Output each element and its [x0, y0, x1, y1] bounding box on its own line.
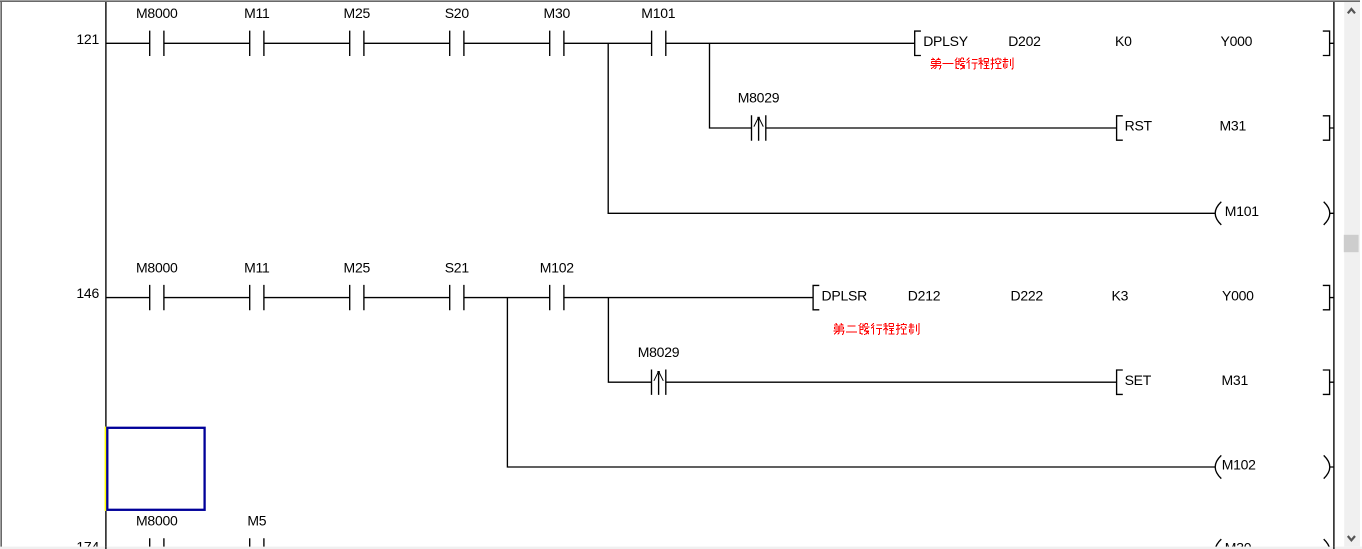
vertical scrollbar track — [1344, 2, 1360, 547]
left bus bar (bottom segment over strip) — [105, 547, 106, 549]
yellow bus segment in selection — [105, 427, 107, 511]
svg-text:M102: M102 — [1222, 457, 1256, 473]
svg-text:M101: M101 — [1225, 203, 1259, 219]
rung 174 (partially visible): contact M8000 — [150, 538, 164, 549]
svg-text:M102: M102 — [540, 259, 574, 275]
window border top — [0, 0, 1360, 1]
svg-text:S20: S20 — [445, 5, 470, 21]
wire branch down to M102 coil — [507, 298, 1215, 467]
svg-text:K3: K3 — [1112, 287, 1129, 303]
contact M25 — [350, 31, 364, 56]
contact M5 — [250, 538, 264, 549]
svg-text:M11: M11 — [244, 259, 270, 275]
instruction SET left bracket — [1117, 370, 1123, 394]
left bus bar — [105, 2, 107, 547]
svg-text:M8029: M8029 — [738, 90, 780, 106]
red comment row 1: 第一段行程控制 — [931, 58, 1013, 70]
svg-text:M8000: M8000 — [136, 259, 178, 275]
svg-text:D222: D222 — [1011, 287, 1044, 303]
svg-text:M31: M31 — [1222, 372, 1249, 388]
instruction DPLSR right bracket — [1323, 285, 1334, 309]
instruction RST right bracket — [1323, 116, 1334, 140]
svg-text:M31: M31 — [1220, 118, 1247, 134]
svg-text:M30: M30 — [544, 5, 571, 21]
rung 121: wire — [106, 42, 915, 44]
contact M25 (rung 146) — [350, 285, 364, 310]
contact M101 — [652, 31, 666, 56]
contact M30 — [550, 31, 564, 56]
scrollbar down arrow — [1348, 536, 1355, 540]
pulse contact M8029 (rung 146) — [652, 370, 666, 395]
contact M11 — [250, 31, 264, 56]
red comment row 2: 第二段行程控制 — [834, 323, 919, 335]
pulse contact M8029 (rung 121) — [752, 115, 766, 140]
contact S20 — [450, 31, 464, 56]
svg-text:M25: M25 — [344, 259, 371, 275]
scrollbar up arrow — [1348, 9, 1355, 13]
scrollbar thumb — [1344, 235, 1359, 252]
svg-text:D202: D202 — [1008, 33, 1041, 49]
instruction SET right bracket — [1323, 370, 1334, 394]
svg-text:K0: K0 — [1115, 33, 1132, 49]
contact S21 — [450, 285, 464, 310]
svg-text:M5: M5 — [247, 513, 266, 529]
window border left — [0, 2, 1, 547]
contact M102 — [550, 285, 564, 310]
coil M30 arcs (partial) — [1215, 539, 1330, 549]
svg-text:DPLSY: DPLSY — [923, 33, 969, 49]
instruction DPLSY left bracket — [915, 31, 921, 55]
right bus bar (bottom segment over strip) — [1333, 547, 1334, 549]
wire branch down to SET rung — [608, 298, 1116, 383]
svg-text:121: 121 — [76, 31, 99, 47]
selection cursor box — [107, 428, 204, 510]
coil M102 arcs — [1215, 455, 1334, 478]
svg-text:M25: M25 — [344, 5, 371, 21]
contact M11 (rung 146) — [250, 285, 264, 310]
svg-text:S21: S21 — [445, 259, 470, 275]
contact M8000 — [150, 31, 164, 56]
svg-text:RST: RST — [1125, 118, 1153, 134]
contact M8000 (rung 146) — [150, 285, 164, 310]
svg-text:Y000: Y000 — [1222, 287, 1254, 303]
wire branch down to M101 coil — [608, 43, 1215, 213]
svg-text:146: 146 — [76, 285, 99, 301]
svg-text:M8000: M8000 — [136, 5, 178, 21]
svg-text:DPLSR: DPLSR — [822, 287, 868, 303]
wire branch down to RST rung — [710, 43, 1117, 128]
svg-text:M11: M11 — [244, 5, 270, 21]
instruction DPLSR left bracket — [813, 285, 819, 309]
svg-text:M8029: M8029 — [638, 344, 680, 360]
coil M101 arcs — [1215, 202, 1334, 225]
instruction DPLSY right bracket — [1323, 31, 1334, 55]
bottom gray strip — [0, 547, 1362, 549]
svg-text:M8000: M8000 — [136, 513, 178, 529]
svg-text:SET: SET — [1125, 372, 1152, 388]
right bus bar — [1333, 2, 1335, 549]
instruction RST left bracket — [1117, 116, 1123, 140]
svg-text:M101: M101 — [641, 5, 675, 21]
svg-text:D212: D212 — [908, 287, 941, 303]
rung 146: wire — [106, 297, 813, 299]
svg-text:Y000: Y000 — [1221, 33, 1253, 49]
